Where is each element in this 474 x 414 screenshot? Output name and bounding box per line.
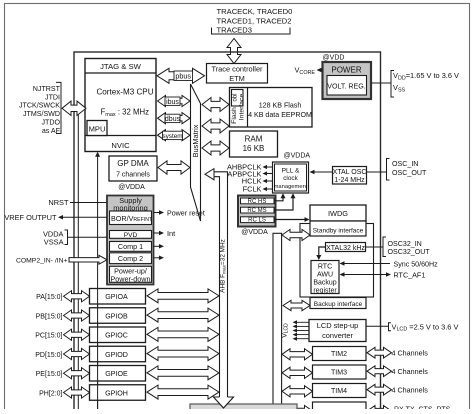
node NRST xyxy=(48,198,107,207)
svg-text:NVIC: NVIC xyxy=(111,141,130,150)
svg-text:RTC_AF1: RTC_AF1 xyxy=(394,271,426,280)
svg-text:Comp 2: Comp 2 xyxy=(118,254,143,263)
wire AHB pipe from busmatrix down xyxy=(205,169,228,397)
supply monitoring block xyxy=(107,196,154,285)
svg-text:PLL &: PLL & xyxy=(282,168,300,175)
svg-text:OSC32_OUT: OSC32_OUT xyxy=(388,248,431,256)
svg-text:OSC32_IN: OSC32_IN xyxy=(388,240,422,248)
wire Int arrow xyxy=(154,229,176,238)
wire RTC_AF1 output xyxy=(340,271,426,280)
label pbus xyxy=(174,71,193,81)
svg-text:TRACECK, TRACED0: TRACECK, TRACED0 xyxy=(217,7,293,16)
svg-text:POWER: POWER xyxy=(331,66,361,75)
svg-text:JTDO: JTDO xyxy=(41,119,60,127)
svg-text:system: system xyxy=(162,133,182,140)
svg-text:4 Channels: 4 Channels xyxy=(392,349,429,358)
svg-text:Int: Int xyxy=(167,229,175,238)
wire busmatrix-flash arrow 1 xyxy=(202,98,229,112)
wire dbus arrow xyxy=(158,113,191,124)
svg-text:management: management xyxy=(274,184,308,190)
wires clock arrows from PLL xyxy=(263,165,273,191)
svg-text:PA[15:0]: PA[15:0] xyxy=(36,294,62,301)
svg-text:16 KB: 16 KB xyxy=(243,144,265,153)
wire GPIOH right AHB arrow xyxy=(147,385,219,399)
svg-text:RAM: RAM xyxy=(245,135,263,144)
svg-text:@VDD: @VDD xyxy=(323,55,345,62)
wire AHB pipe bottom arrowhead xyxy=(214,397,234,408)
node OSC32 labels xyxy=(383,237,430,257)
svg-text:TRACED3: TRACED3 xyxy=(217,26,252,35)
svg-text:Sync 50/60Hz: Sync 50/60Hz xyxy=(394,261,439,269)
svg-text:XTAL OSC: XTAL OSC xyxy=(333,169,367,176)
svg-text:PH[2:0]: PH[2:0] xyxy=(39,390,62,397)
svg-text:OSC_IN: OSC_IN xyxy=(392,160,418,168)
svg-text:PE[15:0]: PE[15:0] xyxy=(36,371,63,378)
svg-text:GPIOA: GPIOA xyxy=(105,293,128,301)
svg-text:TIM4: TIM4 xyxy=(331,388,347,395)
XTAL OSC box xyxy=(333,167,367,185)
svg-text:Interface: Interface xyxy=(239,94,246,121)
svg-text:4 KB data EEPROM: 4 KB data EEPROM xyxy=(248,111,312,119)
svg-text:PVD: PVD xyxy=(124,232,138,239)
svg-text:7 channels: 7 channels xyxy=(116,172,150,179)
RAM box xyxy=(230,131,278,157)
arrowhead into NVIC xyxy=(95,152,100,157)
svg-text:NJTRST: NJTRST xyxy=(33,85,61,93)
obl sub-box xyxy=(232,90,244,107)
XTAL32 kHz box xyxy=(326,243,366,253)
wire RC LS to IWDG xyxy=(274,217,309,222)
wire TIM3 channels arrow xyxy=(367,366,428,377)
wire XTAL OSC to OSC pins xyxy=(367,171,387,173)
node VCORE xyxy=(294,66,322,76)
TIM3 box xyxy=(313,365,367,379)
svg-text:GP DMA: GP DMA xyxy=(117,159,149,168)
wire comp2 output arrow xyxy=(154,256,165,260)
MPU box xyxy=(87,121,107,136)
GPIOD box xyxy=(90,346,146,362)
wire busmatrix-flash arrow 2 xyxy=(202,119,229,133)
GP DMA box xyxy=(109,156,157,181)
svg-text:FCLK: FCLK xyxy=(243,185,262,194)
svg-text:VOLT. REG.: VOLT. REG. xyxy=(327,83,366,91)
svg-text:4 Channels: 4 Channels xyxy=(392,386,429,395)
wire backup APB arrow xyxy=(283,300,310,310)
wire TIM4 APB arrow xyxy=(282,386,313,397)
svg-text:VSSA: VSSA xyxy=(44,238,64,247)
wire GPIOE pin arrow xyxy=(64,368,90,379)
svg-text:NRST: NRST xyxy=(48,198,69,207)
LCD step-up converter box xyxy=(309,320,366,342)
wire XTAL OSC to PLL xyxy=(310,170,333,175)
svg-text:register: register xyxy=(313,287,337,294)
svg-text:dbus: dbus xyxy=(165,116,181,123)
wire GPIOB pin arrow xyxy=(64,310,90,321)
wire TIM3 APB arrow xyxy=(282,367,313,378)
svg-text:AWU: AWU xyxy=(317,271,333,278)
wire pbus double arrow xyxy=(157,68,205,83)
PVD box xyxy=(110,231,152,240)
node COMP2 inputs xyxy=(16,255,107,264)
node OSC_IN OSC_OUT labels xyxy=(387,159,427,181)
RC oscillator group box xyxy=(238,196,276,227)
wire POWER to VDD pins xyxy=(371,82,391,84)
wires VLCD pins xyxy=(293,320,310,340)
wire TIM2 channels arrow xyxy=(367,347,428,358)
svg-text:RC HS: RC HS xyxy=(248,199,267,205)
wire GPIOE right AHB arrow xyxy=(147,366,219,380)
svg-text:Backup interface: Backup interface xyxy=(314,301,363,308)
svg-text:Flash: Flash xyxy=(231,107,238,124)
svg-text:Cortex-M3 CPU: Cortex-M3 CPU xyxy=(96,88,153,97)
bracket jtag labels xyxy=(56,82,61,133)
cpu block Cortex-M3 xyxy=(85,59,156,152)
GPIOA box xyxy=(90,289,146,305)
svg-text:TIM3: TIM3 xyxy=(331,370,347,377)
Trace controller ETM box xyxy=(207,64,268,84)
svg-text:ibus: ibus xyxy=(166,99,179,106)
wire GP DMA to busmatrix arrow xyxy=(158,161,190,174)
svg-text:MPU: MPU xyxy=(89,125,106,134)
partial next peripheral box xyxy=(313,402,367,414)
svg-text:LCD step-up: LCD step-up xyxy=(317,321,359,330)
svg-text:PC[15:0]: PC[15:0] xyxy=(35,333,62,340)
svg-text:@VDDA: @VDDA xyxy=(241,229,268,236)
wire NVIC interrupt vertical line xyxy=(97,154,99,409)
svg-text:BusMatrix: BusMatrix xyxy=(191,124,200,157)
svg-text:JTDI: JTDI xyxy=(45,93,60,101)
svg-text:TRACED1, TRACED2: TRACED1, TRACED2 xyxy=(217,16,292,25)
BOR VREFINT box xyxy=(110,211,153,225)
label dbus xyxy=(165,114,181,123)
RTC AWU box xyxy=(311,261,339,295)
node VREF OUTPUT xyxy=(4,213,107,222)
TIM4 box xyxy=(313,384,367,398)
partial channels arrow bottom xyxy=(367,406,392,414)
wire GPIOC right AHB arrow xyxy=(147,327,219,341)
svg-text:PD[15:0]: PD[15:0] xyxy=(35,352,62,359)
svg-text:clock: clock xyxy=(283,175,298,182)
svg-text:Comp 1: Comp 1 xyxy=(118,242,143,251)
RTC domain container box xyxy=(300,224,374,298)
GPIOH box xyxy=(90,385,146,401)
node VDD VSS labels xyxy=(391,71,459,98)
wire standby APB arrow xyxy=(282,229,310,240)
label system xyxy=(162,131,182,140)
GPIOC box xyxy=(90,327,146,343)
svg-text:RTC: RTC xyxy=(318,263,332,270)
wire XTAL32 to OSC32 pins xyxy=(366,246,384,248)
svg-text:JTAG & SW: JTAG & SW xyxy=(100,62,142,71)
bottom APB gray bus bar xyxy=(190,404,297,414)
wire interrupt line over GPIO xyxy=(97,289,99,410)
svg-text:GPIOE: GPIOE xyxy=(105,370,128,378)
label Flash interface rotated xyxy=(231,94,246,124)
wire GPIOD right AHB arrow xyxy=(147,347,219,361)
svg-text:TIM2: TIM2 xyxy=(331,351,347,358)
TIM2 box xyxy=(313,347,367,361)
IWDG box xyxy=(310,205,366,221)
svg-text:@VDDA: @VDDA xyxy=(284,153,311,160)
svg-text:1-24 MHz: 1-24 MHz xyxy=(334,177,365,184)
svg-text:PB[15:0]: PB[15:0] xyxy=(36,313,63,320)
label ibus xyxy=(165,97,180,106)
partial APB arrow bottom xyxy=(282,405,313,414)
svg-text:VREF OUTPUT: VREF OUTPUT xyxy=(4,213,57,222)
GPIOE box xyxy=(90,366,146,382)
wire trace double arrow to ETM xyxy=(227,39,241,64)
wire XTAL32 to RTC xyxy=(316,247,325,260)
wire GPIOH pin arrow xyxy=(64,387,90,398)
wire GPIOC pin arrow xyxy=(64,329,90,340)
PLL clock management box xyxy=(273,162,309,193)
node TRACE pins labels xyxy=(217,7,293,34)
svg-text:128 KB Flash: 128 KB Flash xyxy=(259,102,302,110)
wire TIM4 channels arrow xyxy=(367,384,428,395)
svg-text:converter: converter xyxy=(322,331,353,340)
wire APB pipe vertical xyxy=(273,233,282,409)
wire power reset arrow xyxy=(154,210,205,218)
wire JTAG big double arrow xyxy=(62,101,86,115)
wire Sync 50/60Hz input xyxy=(340,261,439,269)
svg-text:pbus: pbus xyxy=(175,72,191,81)
svg-text:Standby interface: Standby interface xyxy=(313,227,364,234)
svg-text:VLCD: VLCD xyxy=(282,323,290,338)
wire GPIOD pin arrow xyxy=(64,348,90,359)
svg-text:4 Channels: 4 Channels xyxy=(392,367,429,376)
svg-text:OSC_OUT: OSC_OUT xyxy=(392,169,427,177)
svg-text:@VDDA: @VDDA xyxy=(118,184,145,191)
svg-text:Power-down: Power-down xyxy=(111,274,151,283)
wire RC HS to PLL xyxy=(274,193,285,201)
svg-text:GPIOD: GPIOD xyxy=(105,351,128,359)
bracket under trace labels xyxy=(212,28,291,35)
svg-text:RC MS: RC MS xyxy=(247,208,266,214)
Flash block xyxy=(230,88,313,128)
BusMatrix parallelogram xyxy=(191,84,201,221)
POWER block xyxy=(323,62,372,99)
Backup interface box xyxy=(310,298,366,309)
svg-text:JTMS/SWD: JTMS/SWD xyxy=(23,110,60,118)
svg-text:JTCK/SWCK: JTCK/SWCK xyxy=(19,102,60,110)
Comp 1 box xyxy=(110,242,152,252)
svg-text:GPIOH: GPIOH xyxy=(105,389,128,397)
node JTAG pin labels xyxy=(19,85,61,135)
wire busmatrix-RAM arrow xyxy=(202,141,229,155)
Power-up Power-down box xyxy=(110,266,152,283)
svg-text:Trace controller: Trace controller xyxy=(211,65,263,74)
svg-text:RC LS: RC LS xyxy=(248,218,266,224)
svg-text:GPIOB: GPIOB xyxy=(105,312,128,320)
wire GPIO AF vertical line xyxy=(77,104,79,409)
GPIOB box xyxy=(90,308,146,324)
wire system arrow xyxy=(158,130,191,141)
wire GPIOA right AHB arrow xyxy=(147,289,219,303)
svg-text:GPIOC: GPIOC xyxy=(105,332,128,340)
svg-text:IWDG: IWDG xyxy=(328,209,348,218)
Comp 2 box xyxy=(110,253,152,264)
wire GPIOA pin arrow xyxy=(64,291,90,302)
wire ibus arrow xyxy=(158,95,191,106)
wire VLCD supply label xyxy=(366,322,458,332)
node VDDA VSSA xyxy=(43,229,107,246)
node clock output labels xyxy=(227,163,262,194)
wire comp1 output arrow xyxy=(154,244,165,249)
Standby interface box xyxy=(310,221,366,236)
wire TIM2 APB arrow xyxy=(282,349,313,360)
MCU outer box xyxy=(74,52,381,412)
svg-text:XTAL32 kHz: XTAL32 kHz xyxy=(326,245,365,252)
wire RC MS to PLL xyxy=(274,193,295,210)
svg-text:COMP2_IN- /IN+: COMP2_IN- /IN+ xyxy=(16,257,68,264)
svg-text:Backup: Backup xyxy=(313,280,336,287)
svg-text:Power reset: Power reset xyxy=(167,210,205,218)
svg-text:ETM: ETM xyxy=(229,74,245,83)
wire GPIOB right AHB arrow xyxy=(147,308,219,322)
